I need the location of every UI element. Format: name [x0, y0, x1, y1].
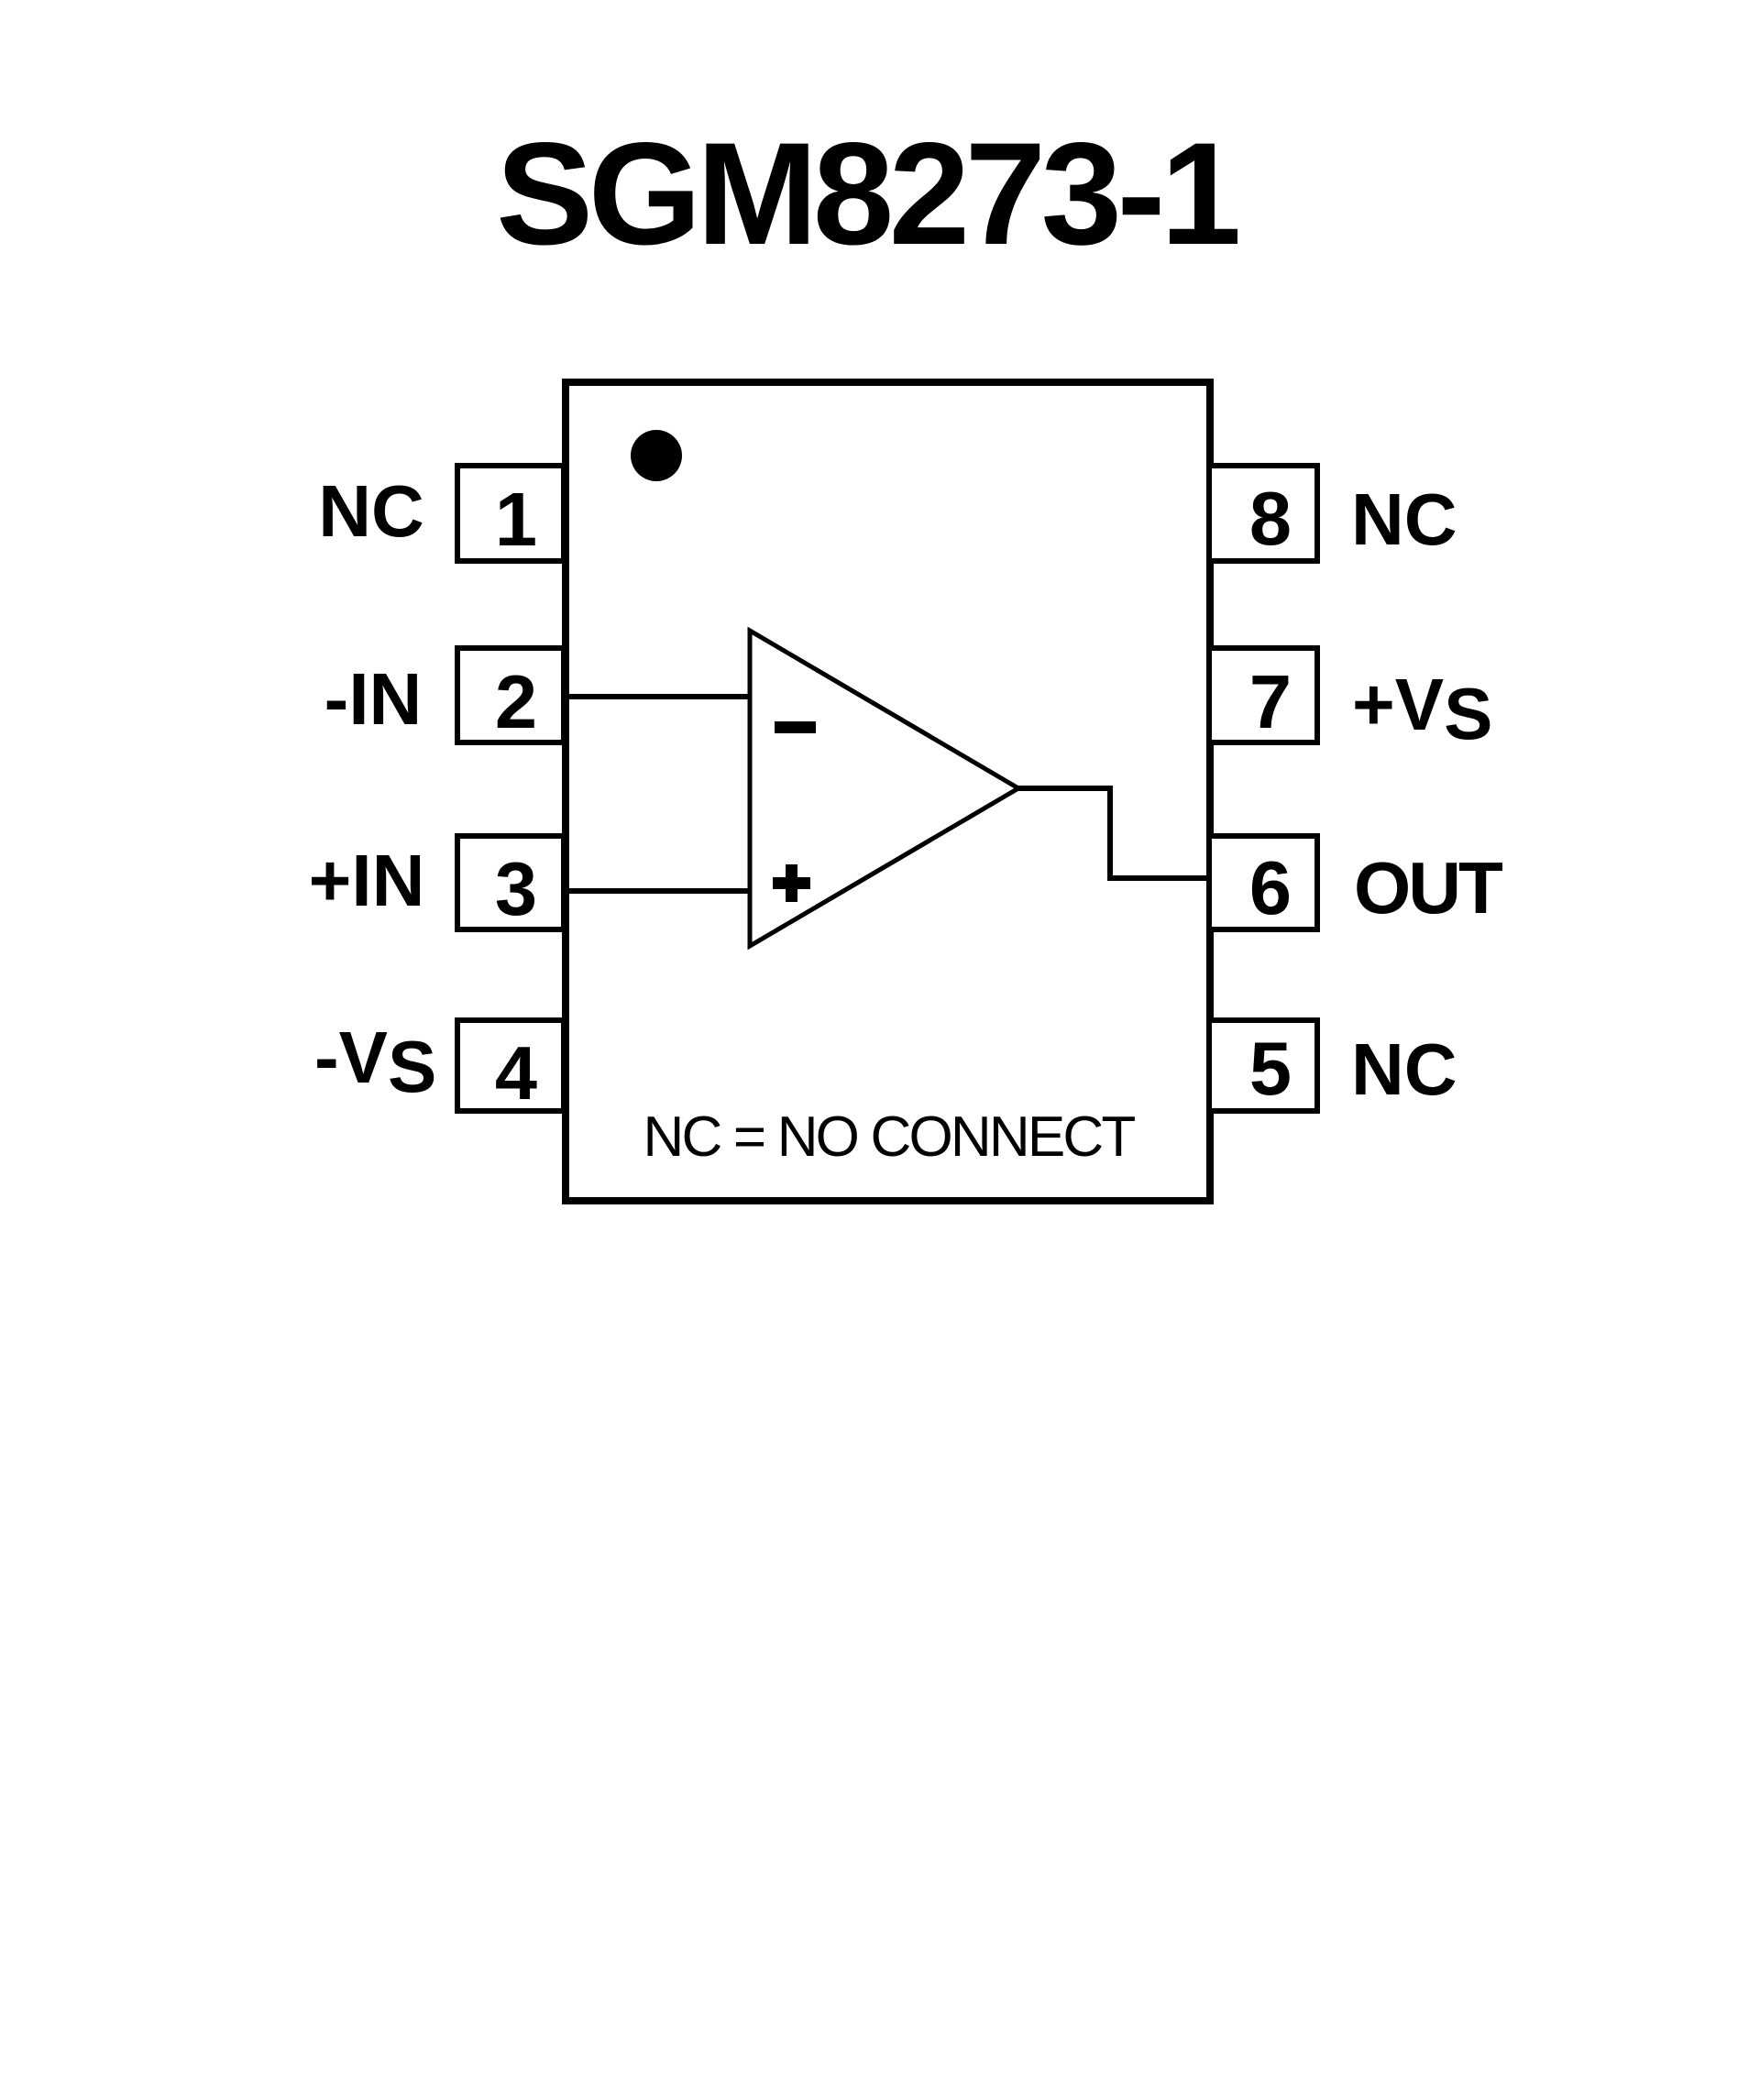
svg-text:NC: NC: [1351, 1028, 1457, 1110]
pin 3 box: [457, 836, 564, 929]
op-amp non-inverting input plus sign: [773, 864, 810, 902]
wire pin 2 to op-amp inverting input: [566, 694, 752, 699]
svg-text:1: 1: [495, 477, 537, 562]
wire op-amp output to pin 6 (jog): [1018, 788, 1211, 878]
pin 1 box: [457, 466, 564, 561]
svg-text:+VS: +VS: [1352, 664, 1492, 754]
pin 7 box: [1209, 648, 1317, 742]
svg-text:2: 2: [495, 659, 537, 744]
op-amp U1 package body: [566, 382, 1210, 1201]
pin 8 box: [1209, 466, 1317, 561]
svg-text:-VS: -VS: [314, 1017, 436, 1107]
svg-text:4: 4: [495, 1030, 537, 1116]
pin 6 box: [1209, 836, 1317, 929]
pin 2 box: [457, 648, 564, 742]
svg-text:3: 3: [495, 846, 537, 931]
svg-text:NC = NO CONNECT: NC = NO CONNECT: [643, 1105, 1136, 1169]
svg-text:5: 5: [1249, 1026, 1292, 1111]
svg-text:NC: NC: [318, 470, 424, 552]
svg-text:8: 8: [1249, 476, 1292, 561]
svg-text:6: 6: [1249, 845, 1292, 930]
svg-text:+IN: +IN: [309, 840, 425, 921]
pin 5 box: [1209, 1020, 1317, 1111]
wire pin 3 to op-amp non-inverting input: [566, 888, 752, 894]
svg-text:NC: NC: [1351, 478, 1457, 560]
svg-text:7: 7: [1249, 659, 1292, 744]
svg-text:OUT: OUT: [1354, 847, 1503, 929]
svg-text:-IN: -IN: [324, 658, 423, 740]
op-amp A1 triangle: [750, 631, 1018, 946]
svg-text:SGM8273-1: SGM8273-1: [496, 112, 1237, 275]
pin 1 orientation dot: [631, 430, 682, 481]
op-amp inverting input minus sign: [775, 721, 816, 733]
pin 4 box: [457, 1020, 564, 1111]
